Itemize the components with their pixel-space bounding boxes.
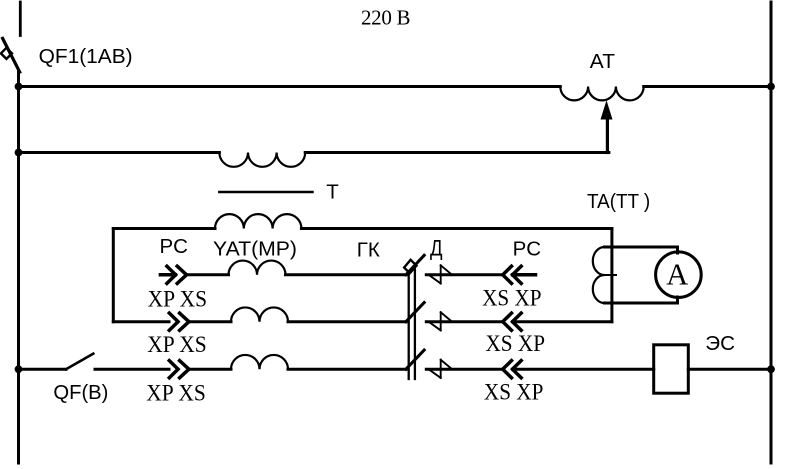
wire 1 left segment [19, 85, 561, 88]
svg-text:XP XS: XP XS [146, 380, 206, 406]
svg-text:220 В: 220 В [361, 6, 411, 30]
connector XS socket row 2 left (chevron) [180, 313, 189, 330]
wire AT tap shaft [606, 118, 609, 153]
svg-text:XS XP: XS XP [482, 285, 542, 311]
svg-text:PC: PC [160, 235, 189, 258]
wire row 3 after switch [95, 368, 169, 371]
connector XS socket row 3 left (chevron) [180, 361, 189, 378]
svg-text:ГК: ГК [357, 239, 380, 262]
autotransformer AT tap arrow [601, 100, 613, 119]
wire row 1 to switch D [286, 273, 406, 276]
wire row 3 to ES [513, 368, 654, 371]
wire row 3 stub from bus [19, 368, 67, 371]
connector XP plug row 2 left (arrow) [169, 313, 178, 330]
svg-text:T: T [326, 181, 339, 204]
wire row 1 left [186, 273, 228, 276]
connector XP plug row 1 right (arrow) [513, 266, 536, 283]
wire 2 left segment [19, 151, 220, 154]
svg-text:ЭС: ЭС [705, 332, 735, 355]
node junction dot right bus / row 3 [767, 365, 775, 373]
svg-text:QF1(1AB): QF1(1AB) [39, 45, 133, 68]
node junction dot left bus / row 3 [15, 365, 23, 373]
svg-text:QF(B): QF(B) [53, 381, 108, 404]
node junction dot left bus / wire 2 [15, 149, 23, 157]
wire loop top left segment [113, 227, 215, 230]
connector XP plug row 1 left (arrow) [160, 266, 175, 283]
connector XP plug row 3 right (arrow) [513, 361, 522, 378]
svg-text:XS XP: XS XP [484, 380, 544, 406]
svg-text:YAT(MP): YAT(MP) [213, 237, 297, 260]
svg-text:А: А [666, 258, 688, 292]
contact mark row 2 [429, 312, 451, 330]
wire row 3 mid [189, 368, 231, 371]
node left bus top stub [19, 2, 22, 36]
wire TA secondary middle stub [605, 274, 617, 276]
wire 1 right segment [644, 85, 771, 88]
wire loop left side [112, 229, 115, 322]
current transformer TA primary (loop right side) [610, 229, 613, 322]
switch D blade row 3 [406, 350, 424, 369]
connector XP plug row 2 right (arrow) [513, 313, 522, 330]
contact mark row 3 [429, 360, 451, 378]
wire row 2 right [426, 320, 503, 323]
wire row 3 from ES to right bus [688, 368, 771, 371]
transformer T secondary winding [215, 214, 301, 228]
connector XS socket row 2 right (chevron) [503, 313, 512, 330]
connector XS socket row 1 left (chevron) [177, 266, 186, 283]
contact mark row 1 [429, 265, 451, 283]
svg-text:XS XP: XS XP [486, 331, 546, 357]
circuit breaker QF1(1AB) square [1, 48, 12, 59]
wire loop top right segment [301, 227, 612, 230]
wire row 2 left [113, 320, 169, 323]
connector XS socket row 3 right (chevron) [503, 361, 512, 378]
connector XS socket row 1 right (chevron) [503, 266, 512, 283]
heater element ES box [654, 345, 689, 393]
svg-text:XP XS: XP XS [147, 332, 207, 358]
switch D linkage bars [409, 270, 415, 380]
svg-text:Д: Д [430, 235, 443, 260]
wire row 2 to switch D [288, 320, 406, 323]
wire right bus [770, 2, 773, 463]
ammeter A [656, 252, 702, 298]
connector XP plug row 3 left (arrow) [169, 361, 178, 378]
wire row 2 mid [189, 320, 231, 323]
circuit breaker QF1(1AB) blade [3, 38, 20, 72]
wire row 2 to TA [513, 320, 612, 323]
node junction dot left bus / wire 1 [15, 83, 23, 91]
current transformer TA secondary winding [593, 247, 605, 303]
switch D blade row 2 [406, 303, 424, 322]
inductor row 3 coil [231, 355, 288, 369]
wire row 1 right [426, 273, 503, 276]
inductor YAT(MP) row 1 coil [229, 261, 286, 275]
wire row 3 right [426, 368, 503, 371]
wire left bus [17, 71, 20, 463]
switch D square on blade 1 [404, 260, 416, 273]
svg-text:XP XS: XP XS [148, 287, 208, 313]
wire TA secondary top to ammeter [605, 247, 678, 253]
node junction dot right bus / wire 1 [767, 83, 775, 91]
svg-text:PC: PC [513, 238, 542, 261]
svg-text:AT: AT [590, 50, 616, 73]
transformer T core [219, 191, 312, 194]
wire TA secondary bottom to ammeter [605, 297, 678, 303]
autotransformer AT winding [560, 87, 643, 101]
inductor row 2 coil [231, 307, 288, 321]
wire 2 right segment [305, 151, 609, 154]
wire row 3 to switch D [288, 368, 406, 371]
transformer T primary winding [219, 153, 305, 167]
svg-text:TA(TT ): TA(TT ) [587, 190, 650, 213]
switch QF(B) blade [66, 354, 93, 370]
switch D blade row 1 [406, 255, 424, 274]
